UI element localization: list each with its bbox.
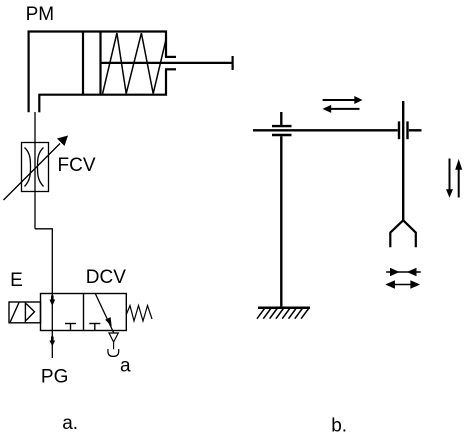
vertical motion arrows	[446, 159, 462, 198]
DCV left box flow path	[51, 294, 53, 331]
DCV blocked port T (left box)	[65, 324, 76, 331]
cylinder PM body	[29, 32, 176, 113]
left slider joint	[272, 126, 292, 135]
ground	[258, 307, 310, 310]
vertical rod	[402, 101, 404, 220]
DCV right box flow path arrow	[96, 294, 114, 333]
right slider joint	[399, 121, 408, 139]
beam	[253, 129, 422, 131]
ground hatching	[257, 309, 309, 319]
flow arrowhead down (top)	[51, 296, 54, 301]
exhaust stem	[113, 342, 115, 349]
horizontal motion arrows	[323, 96, 363, 113]
svg-text:a: a	[120, 356, 131, 377]
pipe cylinder to FCV	[34, 112, 36, 143]
svg-text:FCV: FCV	[58, 155, 96, 176]
solenoid E box	[9, 302, 41, 323]
DCV return spring	[127, 306, 153, 322]
svg-text:PM: PM	[26, 4, 54, 25]
DCV body	[41, 294, 127, 331]
pipe PG to DCV	[51, 331, 53, 359]
column post	[280, 112, 282, 307]
svg-text:PG: PG	[41, 367, 68, 388]
gripper fork	[390, 220, 416, 247]
svg-text:E: E	[10, 270, 23, 291]
return spring	[103, 33, 167, 94]
DCV blocked port T (right box)	[89, 324, 100, 331]
flow arrowhead down (bottom)	[51, 337, 54, 342]
FCV body	[22, 143, 49, 192]
pipe FCV to DCV	[35, 229, 52, 294]
svg-text:a.: a.	[62, 413, 78, 434]
pipe through FCV	[34, 143, 36, 229]
exhaust cup symbol	[108, 349, 119, 356]
piston rod	[102, 56, 233, 70]
gripper open arrow	[385, 280, 420, 288]
DCV exhaust triangle	[109, 333, 118, 342]
svg-text:b.: b.	[331, 416, 347, 437]
svg-text:DCV: DCV	[86, 267, 126, 288]
piston	[83, 32, 101, 95]
FCV adjustment arrow	[4, 136, 69, 201]
gripper close arrows	[386, 268, 421, 276]
